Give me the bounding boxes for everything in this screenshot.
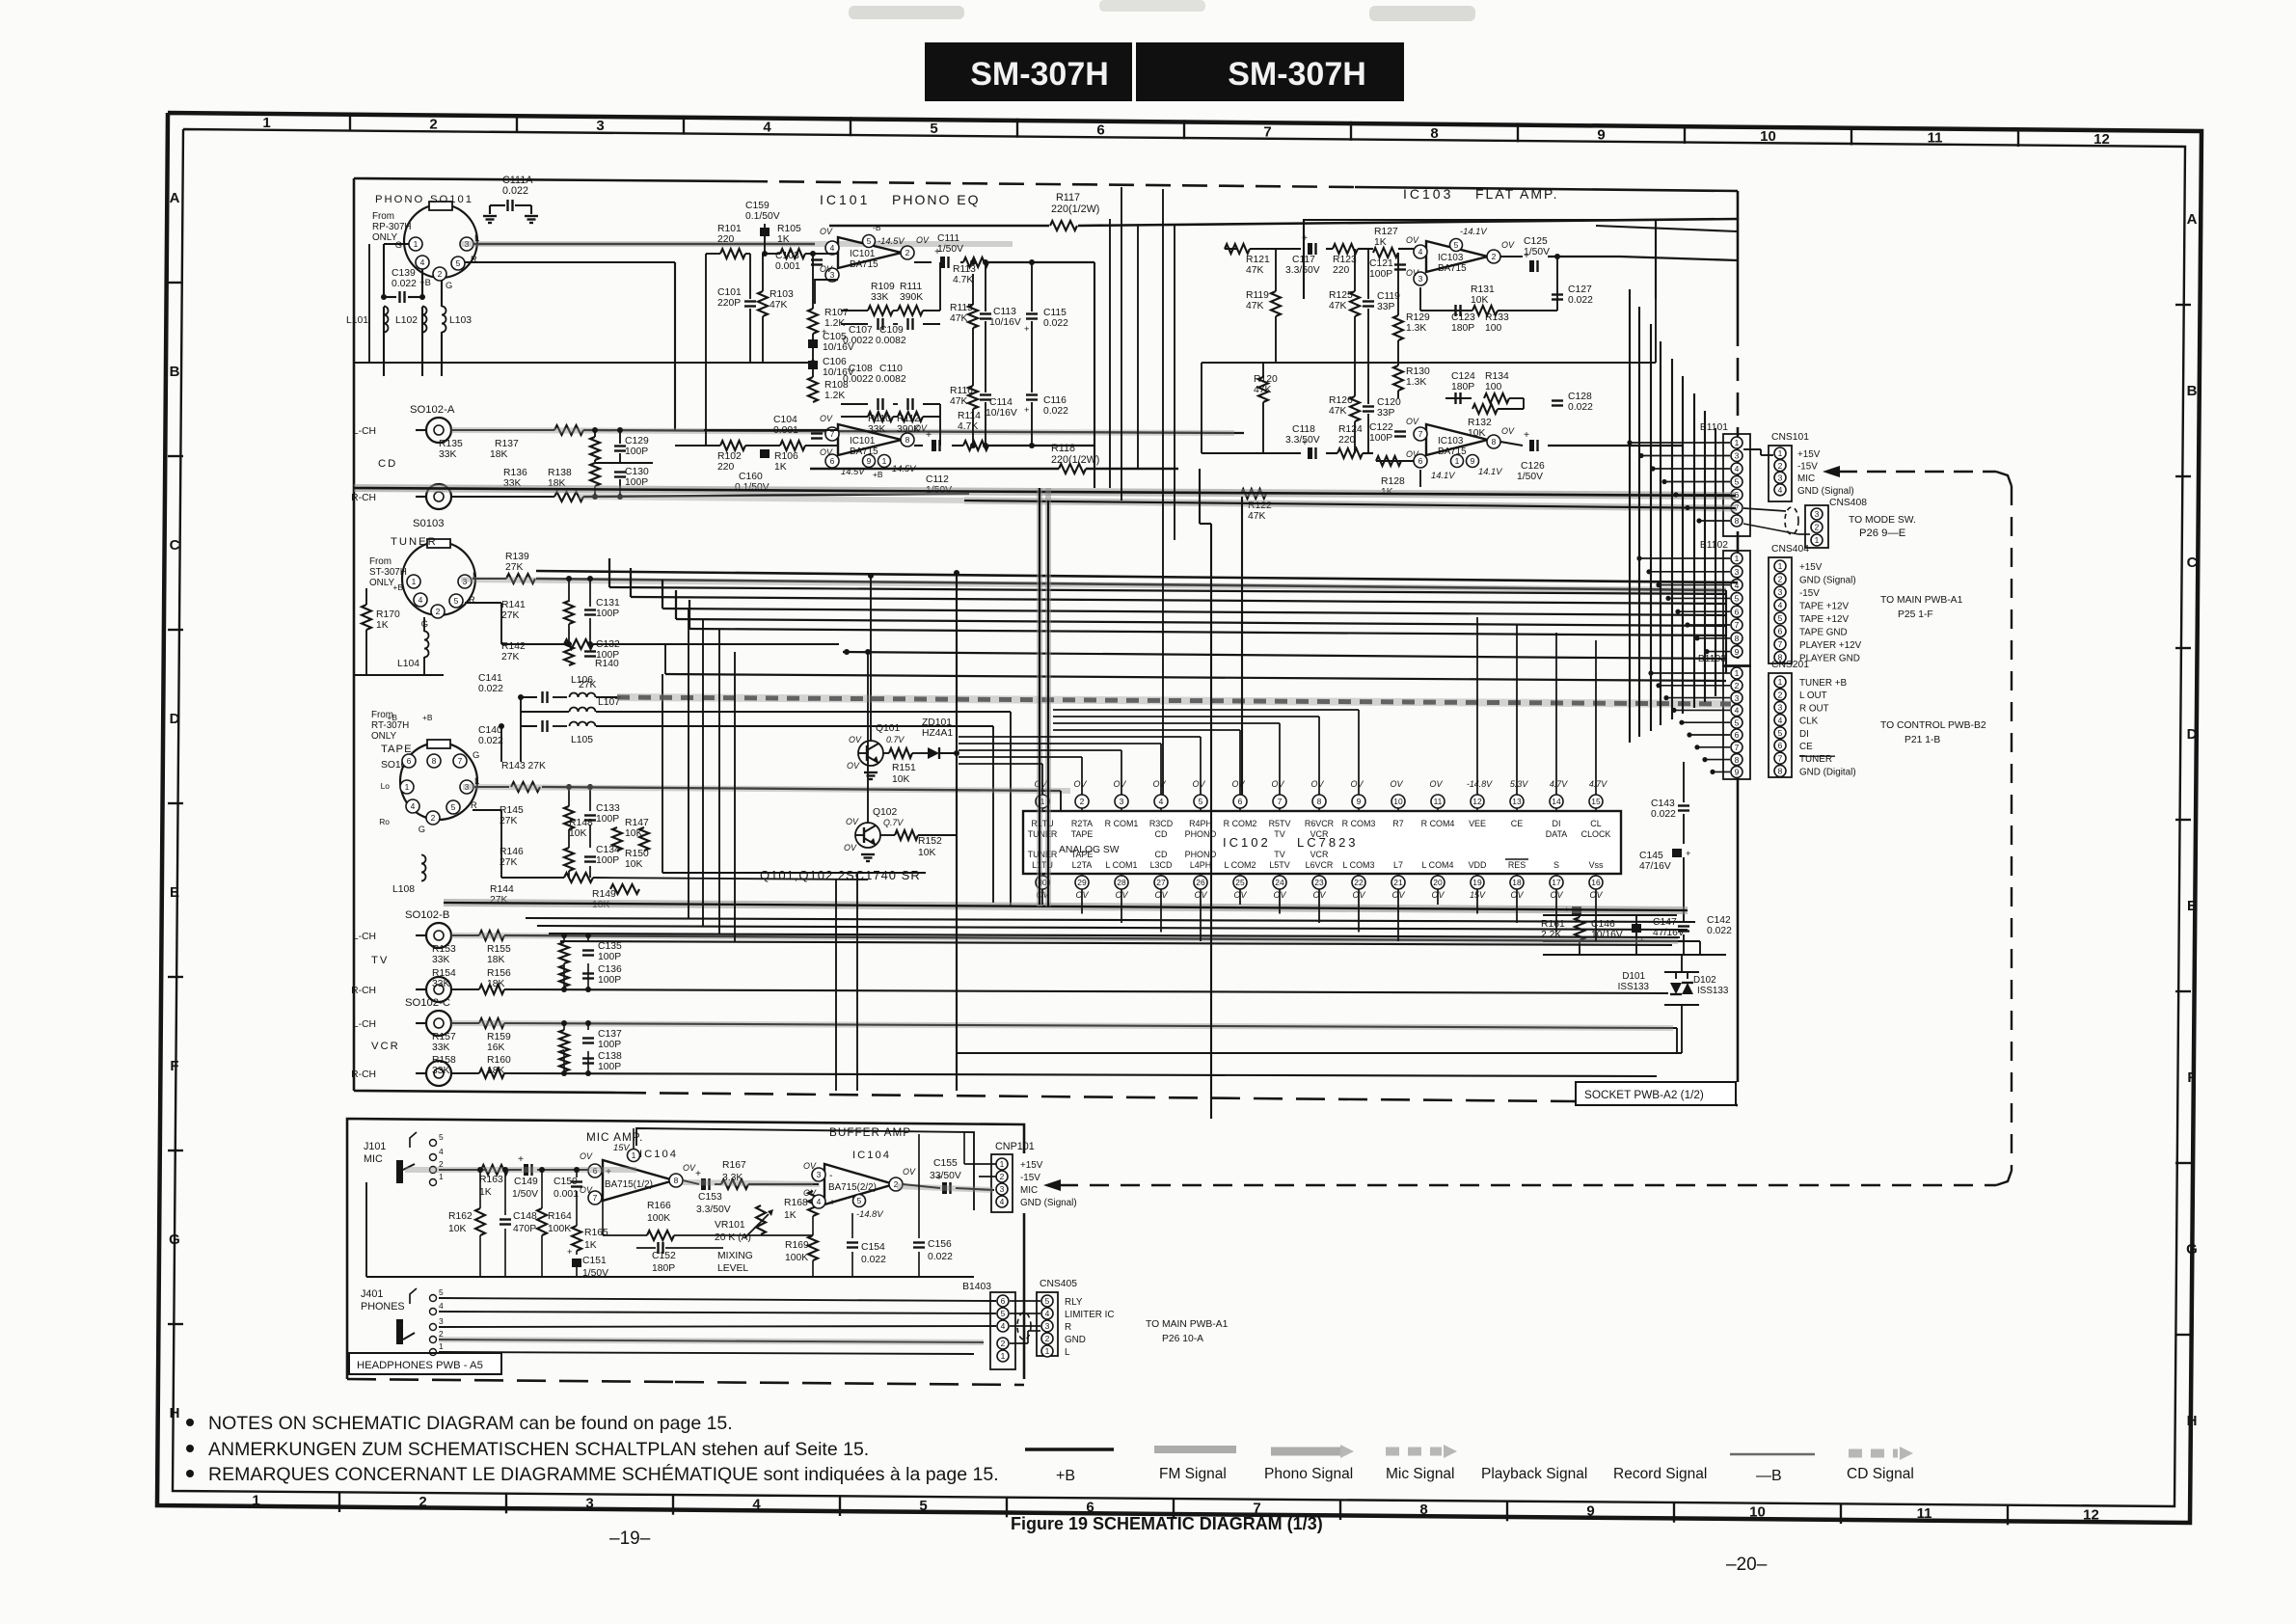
IC101 upper pin 4 [825,241,839,255]
wire lower opamp input [704,429,838,431]
wire bus [537,926,1688,930]
svg-text:C106: C106 [823,357,847,367]
svg-text:R7: R7 [1392,819,1403,828]
svg-text:10/16V: 10/16V [823,342,854,353]
svg-text:C129: C129 [625,436,649,447]
svg-text:C112: C112 [926,474,949,485]
svg-text:R162: R162 [448,1211,473,1222]
wire [1688,507,1730,509]
wire [1705,759,1730,761]
svg-text:R137: R137 [495,439,519,449]
svg-text:R159: R159 [487,1032,511,1042]
svg-text:H: H [2187,1413,2198,1429]
dashed MIC route arrow [1838,471,1996,473]
svg-text:-14.5V: -14.5V [878,235,905,246]
svg-text:16K: 16K [487,1042,504,1053]
svg-text:TO CONTROL PWB-B2: TO CONTROL PWB-B2 [1880,720,1986,731]
wire C143 stem [1683,762,1685,802]
svg-text:PHONES: PHONES [361,1301,405,1313]
svg-text:4: 4 [1001,1321,1006,1331]
svg-text:4: 4 [763,120,771,136]
svg-text:CNS405: CNS405 [1040,1279,1077,1289]
svg-text:+15V: +15V [1797,449,1821,460]
svg-text:29: 29 [1077,878,1087,887]
op-amp IC101 upper [838,237,902,268]
svg-text:R150: R150 [625,849,649,859]
svg-text:+: + [1024,323,1030,334]
svg-text:10/16V: 10/16V [989,317,1021,328]
svg-text:R147: R147 [625,818,649,828]
IC103 feedback box outline [1304,220,1656,299]
SO104 pin 2 [426,811,440,825]
svg-text:100P: 100P [596,609,619,619]
svg-text:L-CH: L-CH [353,426,376,437]
svg-text:R169: R169 [785,1240,809,1251]
svg-text:6: 6 [1735,730,1740,740]
svg-text:P25 1-F: P25 1-F [1898,609,1933,620]
wire opamp2 output [903,1184,940,1188]
svg-text:33K: 33K [439,449,456,460]
svg-text:1: 1 [1778,561,1783,571]
svg-text:47K: 47K [1329,406,1346,417]
wire bus [676,619,1726,626]
IC101 lower pin 1 [878,455,891,468]
svg-text:4: 4 [1778,716,1783,725]
wire Q101 base up [870,576,872,742]
svg-text:47K: 47K [1248,511,1265,522]
svg-text:4.7V: 4.7V [1589,779,1607,789]
svg-text:G: G [169,1232,180,1248]
svg-text:-15V: -15V [1799,588,1820,599]
SO101 pin 2 [433,267,446,281]
SO103 pin 3 [458,575,472,588]
wire Q102 to R152 [880,834,895,836]
svg-text:C113: C113 [993,307,1016,317]
B1103 pin 4 [1731,704,1742,716]
svg-text:5: 5 [857,1196,862,1205]
IC101 lower pin 8 [901,433,914,447]
svg-text:P21 1-B: P21 1-B [1904,735,1940,745]
svg-text:R114: R114 [958,411,981,421]
B1102 pin 1 [1731,553,1742,564]
svg-text:4: 4 [752,1497,761,1513]
svg-text:CD: CD [378,458,397,470]
wire [1693,393,1695,708]
IC103 upper pin 4 [1414,245,1427,258]
svg-text:6: 6 [1238,797,1243,806]
wire flat amp lower path [1202,452,1301,454]
svg-text:1K: 1K [777,234,790,245]
svg-text:–20–: –20– [1726,1555,1768,1575]
svg-text:7: 7 [593,1193,598,1203]
svg-text:TAPE: TAPE [1071,850,1094,859]
svg-text:E: E [2187,898,2197,914]
svg-text:+15V: +15V [1020,1160,1043,1171]
wire [1160,889,1162,933]
svg-text:R: R [471,799,477,810]
svg-text:-14.8V: -14.8V [856,1208,883,1219]
svg-text:6: 6 [1418,456,1423,466]
wire [1239,889,1241,905]
svg-text:TAPE +12V: TAPE +12V [1799,614,1849,625]
svg-text:BUFFER AMP: BUFFER AMP [829,1126,911,1139]
svg-text:C138: C138 [598,1051,622,1062]
op-amp IC101 lower [838,424,902,455]
wire verticals pins 12-15 [1476,617,1478,795]
svg-text:1: 1 [439,1341,444,1351]
svg-text:1: 1 [262,115,270,131]
svg-text:OV: OV [1501,426,1515,436]
SO104 pin 1 [400,780,414,794]
svg-text:+: + [926,430,932,441]
socket PWB-A2 board outline [354,178,743,181]
svg-text:+: + [1524,251,1529,261]
svg-text:2: 2 [1492,252,1497,261]
wire bottom +B rail in socket board [957,1052,1682,1054]
svg-text:Phono Signal: Phono Signal [1264,1466,1353,1482]
wire bus [662,609,1726,615]
svg-text:R156: R156 [487,968,511,979]
ground at C111A left [483,215,497,217]
wire [1697,637,1730,639]
svg-text:8: 8 [1735,634,1740,643]
SO101 pin 1 [409,237,422,251]
svg-text:5: 5 [1001,1309,1006,1318]
wire buffer path [813,1190,819,1192]
svg-text:3: 3 [596,118,604,134]
svg-text:7: 7 [1735,743,1740,752]
svg-text:5: 5 [1735,717,1740,727]
wire [1682,721,1730,723]
svg-text:ONLY: ONLY [372,232,398,243]
svg-text:100K: 100K [548,1224,571,1234]
IC104 second pin 4 [812,1195,825,1208]
wire bus [549,934,1680,937]
svg-text:100K: 100K [785,1253,808,1263]
svg-text:OV: OV [847,761,860,771]
svg-text:VCR: VCR [1310,829,1329,839]
svg-text:R OUT: R OUT [1799,703,1829,714]
svg-text:OV: OV [1430,779,1444,789]
svg-text:R160: R160 [487,1055,511,1066]
svg-text:B: B [2187,383,2198,399]
svg-text:P26 9—E: P26 9—E [1859,528,1906,539]
svg-text:3: 3 [1735,451,1740,461]
SO104 pin 8 [427,754,441,768]
svg-text:100: 100 [1485,382,1501,392]
svg-text:L102: L102 [395,315,418,326]
svg-text:4: 4 [1735,706,1740,716]
B1403 pin 2 [997,1338,1009,1349]
svg-text:33K: 33K [432,979,449,989]
CNS201 pin 1 [1774,676,1786,688]
svg-text:Record Signal: Record Signal [1613,1466,1707,1482]
J101 pin 4 [430,1154,437,1161]
svg-text:2: 2 [1735,681,1740,690]
IC102 pin 13 [1510,795,1524,808]
SO104 pin 6 [402,754,416,768]
svg-text:OV: OV [1074,779,1088,789]
svg-text:0.022: 0.022 [928,1252,953,1262]
svg-text:5: 5 [454,596,459,606]
svg-text:C108: C108 [849,364,873,374]
IC102 pin 21 [1391,876,1405,889]
IC103 lower pin 6 [1414,454,1427,468]
svg-text:15: 15 [1591,797,1601,806]
svg-text:B1403: B1403 [962,1282,991,1292]
svg-text:F: F [2187,1069,2196,1086]
wire [1649,571,1730,573]
wire feedback box upper [815,280,838,304]
svg-text:R134: R134 [1485,371,1509,382]
CNS101 pin 1 [1774,447,1786,459]
svg-text:TAPE: TAPE [381,744,413,755]
svg-text:9: 9 [1597,126,1605,143]
wire R151 to ZD101 [883,752,889,754]
wire Q102 base up [867,652,869,824]
svg-text:1: 1 [1001,1351,1006,1361]
svg-text:C160: C160 [739,472,763,482]
svg-text:+: + [518,1154,524,1165]
svg-text:OV: OV [849,735,862,744]
svg-text:R151: R151 [892,763,916,773]
svg-text:MIC: MIC [364,1153,383,1165]
svg-text:TUNER +B: TUNER +B [1799,678,1847,689]
svg-text:220: 220 [717,462,734,473]
svg-text:180P: 180P [1451,323,1474,334]
svg-text:25: 25 [1235,878,1245,887]
svg-text:OV: OV [683,1163,696,1173]
svg-text:470P: 470P [513,1224,536,1234]
CNS405 pin 1 [1041,1345,1053,1357]
wire [1081,757,1083,795]
wire [1704,411,1706,702]
svg-text:R6VCR: R6VCR [1305,819,1335,828]
svg-text:1K: 1K [774,462,787,473]
svg-text:7: 7 [1735,620,1740,630]
B1103 pin 7 [1731,742,1742,753]
svg-text:R143 27K: R143 27K [501,761,546,771]
svg-text:R152: R152 [918,836,942,847]
svg-text:0.0082: 0.0082 [876,374,906,385]
IC102 pin 5 [1194,795,1207,808]
wire mid rail flat amp [1202,362,1656,364]
svg-text:3: 3 [585,1495,593,1511]
svg-text:1: 1 [882,456,887,466]
wire vertical stems mic amp [479,1170,481,1208]
svg-text:LEVEL: LEVEL [717,1263,748,1274]
svg-text:ZD101: ZD101 [922,717,952,728]
B1102 pin 7 [1731,619,1742,631]
svg-text:C117: C117 [1292,255,1315,265]
svg-text:R135: R135 [439,439,463,449]
svg-text:OV: OV [1406,268,1419,278]
svg-text:C133: C133 [596,803,620,814]
SO104 pin 3 [460,780,473,794]
svg-text:LIMITER IC: LIMITER IC [1065,1310,1115,1320]
svg-text:OV: OV [903,1167,916,1177]
svg-text:OV: OV [844,843,857,853]
svg-text:7: 7 [1418,429,1423,439]
title bar SM-307H left [925,42,1132,101]
wire [1666,697,1730,699]
svg-text:BA715: BA715 [850,259,878,270]
CNP101 pin 3 [996,1183,1008,1195]
svg-text:L COM1: L COM1 [1106,860,1138,870]
svg-text:L COM3: L COM3 [1343,860,1375,870]
IC101 upper pin 5 [863,235,876,248]
wire verticals right of opamp outputs [1109,219,1111,488]
svg-text:C159: C159 [745,201,770,211]
svg-text:R165: R165 [584,1228,608,1238]
CNS201 pin 2 [1774,689,1786,700]
wire R131 feedback [1419,287,1421,311]
svg-text:CD: CD [1155,850,1168,859]
svg-text:220P: 220P [717,298,741,309]
wire [1676,494,1730,496]
svg-text:G: G [419,824,425,834]
wire [1660,341,1661,725]
wire VCR L line [451,1022,479,1024]
wire [1318,717,1320,795]
svg-text:2: 2 [431,813,436,823]
svg-text:6: 6 [1086,1499,1094,1515]
wire CD caps junctions [594,430,596,437]
svg-text:6: 6 [1096,122,1104,139]
svg-text:3.3/50V: 3.3/50V [696,1204,731,1215]
svg-text:OV: OV [1501,240,1515,250]
svg-text:4: 4 [420,257,425,267]
IC102 pin 17 [1550,876,1563,889]
svg-text:5: 5 [1045,1296,1050,1306]
svg-text:7: 7 [1263,123,1271,140]
svg-text:MIXING: MIXING [717,1251,753,1261]
svg-text:33K: 33K [432,1042,449,1053]
svg-text:7: 7 [1278,797,1283,806]
wire mid rail [354,362,813,364]
IC103 lower pin 8 [1487,435,1500,448]
J401 pin 3 [430,1324,437,1331]
svg-text:C153: C153 [698,1192,722,1203]
B1403 pin 6 [997,1295,1009,1307]
CNS201 pin 7 [1774,752,1786,764]
svg-text:220: 220 [1338,435,1355,446]
svg-text:G: G [473,749,479,760]
wire R132 feedback [1419,429,1421,451]
IC102 pin 2 [1075,795,1089,808]
headphones PWB-A5 label box [349,1353,501,1374]
svg-text:OV: OV [1406,449,1419,459]
wire C140 stem left [500,726,502,762]
svg-text:8: 8 [432,756,437,766]
wire TV caps stems [563,935,565,942]
wire C141 stem left [520,697,522,762]
wire [1664,481,1730,483]
svg-text:CNS101: CNS101 [1771,432,1809,443]
svg-text:A: A [170,190,180,206]
IC102 pin 24 [1273,876,1286,889]
svg-text:5: 5 [867,236,872,246]
svg-text:1: 1 [1815,535,1820,545]
IC102 pin 8 [1312,795,1326,808]
svg-text:FLAT AMP.: FLAT AMP. [1475,186,1558,202]
svg-text:+: + [695,1169,701,1179]
svg-text:R157: R157 [432,1032,456,1042]
svg-text:100P: 100P [1369,269,1392,280]
CNS201 pin 3 [1774,701,1786,713]
SO101 pin 3 [460,237,473,251]
wire TV R line [451,988,479,990]
svg-text:4: 4 [411,801,416,811]
wire [1707,651,1730,653]
IC102 pin 22 [1352,876,1365,889]
CNS405 pin 5 [1041,1295,1053,1307]
svg-text:TAPE GND: TAPE GND [1799,628,1848,638]
wire right cluster rails [1543,914,1677,916]
svg-text:5: 5 [456,258,461,268]
svg-text:C114: C114 [989,397,1013,408]
svg-text:2: 2 [438,269,443,279]
B1102 pin 4 [1731,580,1742,591]
svg-text:1: 1 [405,782,410,792]
scan smudge top 1 [849,6,964,19]
svg-text:17: 17 [1552,878,1561,887]
svg-text:TV: TV [1274,829,1284,839]
svg-text:22: 22 [1354,878,1364,887]
IC103 upper pin 3 [1414,272,1427,285]
wire [1437,889,1439,905]
svg-text:R126: R126 [1329,395,1353,406]
svg-text:26: 26 [1196,878,1205,887]
svg-text:47K: 47K [1329,301,1346,311]
SO103 pin 4 [414,593,427,607]
svg-text:4: 4 [817,1197,822,1206]
SO103 pin 2 [431,605,445,618]
legend FM Signal [1154,1446,1236,1453]
svg-text:L-CH: L-CH [353,932,376,942]
svg-text:HZ4A1: HZ4A1 [922,728,953,739]
svg-text:27: 27 [1156,878,1166,887]
svg-text:D102: D102 [1693,975,1716,986]
svg-text:9: 9 [1586,1502,1594,1519]
svg-text:1: 1 [1735,554,1740,563]
svg-text:L105: L105 [571,735,593,745]
svg-text:1: 1 [439,1172,444,1181]
svg-text:390K: 390K [900,292,923,303]
legend -B line [1730,1453,1815,1455]
svg-text:220: 220 [1333,265,1349,276]
svg-text:3: 3 [1778,473,1783,482]
connector SO102-C R-CH jack [426,1061,451,1086]
wire [1713,771,1730,772]
svg-text:23: 23 [1314,878,1324,887]
svg-text:J101: J101 [364,1141,386,1152]
ground Q102 [861,853,875,855]
svg-text:OV: OV [1114,779,1127,789]
svg-text:R154: R154 [432,968,456,979]
wire [1651,672,1730,674]
svg-text:4.7K: 4.7K [953,275,973,285]
svg-text:ONLY: ONLY [369,578,395,588]
svg-text:18K: 18K [490,449,507,460]
svg-text:33/50V: 33/50V [930,1171,961,1181]
svg-text:C120: C120 [1377,397,1401,408]
svg-text:J401: J401 [361,1288,383,1300]
wire [1671,359,1673,719]
IC102 pin 16 [1589,876,1603,889]
svg-text:1: 1 [252,1493,259,1509]
svg-text:L-CH: L-CH [353,1019,376,1030]
